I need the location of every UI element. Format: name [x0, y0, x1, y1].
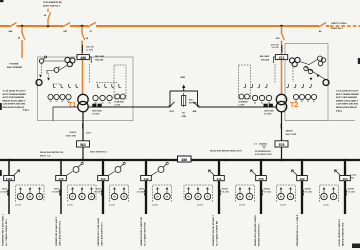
node T2-bus — [280, 159, 283, 162]
relay cluster T2 — [295, 57, 300, 62]
svg-text:141: 141 — [216, 177, 221, 181]
svg-text:AUTO TAPCHANGER: AUTO TAPCHANGER — [3, 96, 25, 99]
meter arrows 132 — [280, 188, 282, 194]
node feeder 141 — [218, 159, 221, 162]
arrester coil T1 — [81, 45, 83, 53]
meter arrows 172 — [72, 188, 74, 194]
NO arrow 141 — [209, 170, 215, 175]
svg-text:TO GRD: TO GRD — [264, 114, 272, 116]
svg-text:472: 472 — [279, 56, 285, 60]
switch 68 riser blade — [48, 12, 51, 19]
svg-text:BYPASS: BYPASS — [189, 101, 197, 104]
svg-text:RELAY AND METER PANEL (FUT): RELAY AND METER PANEL (FUT) — [210, 149, 242, 152]
meters 142 — [154, 193, 160, 199]
svg-text:area B: area B — [67, 204, 73, 206]
node feeder 150 — [344, 159, 347, 162]
svg-text:220KV NO 2: 220KV NO 2 — [331, 28, 344, 30]
svg-text:4160V: 4160V — [86, 132, 92, 135]
NO indicator 152 — [115, 167, 121, 173]
wire future feeder drop — [21, 26, 23, 58]
node bus-elizabeth — [47, 25, 50, 28]
svg-text:TO ELIZABETH SB: TO ELIZABETH SB — [43, 1, 62, 4]
wire feeder 156 lower — [260, 181, 262, 214]
chevrons T2 — [310, 75, 320, 81]
switch 46 blade — [319, 23, 326, 27]
svg-text:HIGH SIDE: HIGH SIDE — [92, 110, 102, 112]
arrow bypass — [182, 85, 185, 89]
svg-text:51: 51 — [56, 101, 58, 103]
svg-text:SOMERSET RD & SAN JUAN 1: SOMERSET RD & SAN JUAN 1 — [2, 213, 5, 246]
svg-text:40900: 40900 — [96, 187, 101, 190]
meters 152 — [111, 193, 117, 199]
svg-text:2x 1085: 2x 1085 — [272, 47, 279, 49]
wire feeder 132 lower — [301, 181, 303, 214]
aux relay circles T2 — [318, 56, 323, 61]
relay 87T circles T2 — [321, 58, 325, 62]
wire 220kV bus — [0, 25, 329, 27]
frame T2 lower line — [285, 120, 355, 122]
svg-text:NOR B: NOR B — [70, 132, 77, 134]
svg-text:486: 486 — [181, 158, 187, 162]
svg-text:66KV SWGR NO 1: 66KV SWGR NO 1 — [90, 152, 108, 154]
switch 68 T1 blade — [82, 34, 85, 41]
svg-text:40900B: 40900B — [222, 187, 229, 190]
svg-text:(BKR A) STATION USE: (BKR A) STATION USE — [342, 222, 345, 246]
svg-text:area B: area B — [15, 204, 21, 206]
NO indicator 172 — [73, 167, 79, 173]
svg-text:REGULATION RELAY: REGULATION RELAY — [3, 106, 25, 109]
svg-text:OAK LANE EAST NO 3: OAK LANE EAST NO 3 — [101, 222, 104, 246]
meter charging T1 — [115, 94, 120, 99]
svg-text:220KV LINE NO 1: 220KV LINE NO 1 — [43, 6, 61, 8]
NO arrow 156 — [251, 170, 257, 175]
breaker 141 box — [214, 176, 225, 181]
svg-text:NER: NER — [180, 77, 185, 79]
svg-text:area B: area B — [152, 204, 158, 206]
svg-text:578: 578 — [279, 143, 285, 147]
svg-text:CH-1085: CH-1085 — [264, 191, 271, 193]
wire feeder 172 lower — [60, 181, 62, 214]
wire feeder 142 upper — [145, 160, 147, 176]
svg-text:CH-1085: CH-1085 — [305, 191, 312, 193]
edge mark left-b — [0, 170, 2, 176]
switch 686 blade — [10, 23, 17, 27]
svg-text:TO GRD: TO GRD — [92, 114, 100, 116]
svg-text:CHARGING: CHARGING — [114, 100, 124, 103]
svg-text:CH-1085: CH-1085 — [52, 191, 59, 193]
CT T1 down — [81, 124, 84, 129]
svg-text:CH-1085: CH-1085 — [348, 191, 355, 193]
svg-text:T1: T1 — [68, 102, 76, 109]
chevrons T1 — [39, 75, 50, 81]
svg-text:132: 132 — [299, 177, 304, 181]
svg-text:142: 142 — [143, 177, 148, 181]
PT hooks T1 — [53, 84, 121, 88]
svg-text:4160 3W: 4160 3W — [86, 46, 94, 49]
svg-text:area B: area B — [197, 204, 203, 206]
svg-text:51: 51 — [307, 101, 309, 103]
NO arrow 1112 — [14, 170, 20, 175]
svg-text:40900: 40900 — [54, 187, 59, 190]
svg-text:or 2088: or 2088 — [238, 104, 244, 106]
bus 66kV main — [0, 159, 360, 161]
frame T2 panel — [285, 44, 328, 121]
svg-text:51: 51 — [261, 102, 263, 104]
meters 132 — [278, 193, 284, 199]
CT 1112 — [7, 190, 10, 196]
svg-text:SOMERSET ROYAL ATLANT 7: SOMERSET ROYAL ATLANT 7 — [212, 214, 215, 246]
edge mark top-left — [0, 0, 4, 2]
dashed sense T1 — [42, 64, 119, 85]
CT T2 down — [280, 124, 283, 129]
wire T1-T2 tie — [88, 106, 277, 108]
meters T1 right — [93, 95, 98, 100]
switch 42B blade — [193, 102, 199, 108]
svg-text:CH-1085: CH-1085 — [137, 191, 144, 193]
CT 141 — [219, 190, 222, 196]
node feeder 156 — [260, 159, 263, 162]
svg-text:1-5/8 STEPS 2789 5HG: 1-5/8 STEPS 2789 5HG — [336, 104, 359, 106]
svg-text:156: 156 — [258, 177, 263, 181]
wire riser to Elizabeth sub — [47, 9, 49, 27]
wire feeder 1112 upper — [8, 160, 10, 176]
wire feeder 141 upper — [218, 160, 220, 176]
meters 150 — [321, 193, 327, 199]
node feeder 142 — [145, 159, 148, 162]
wire T2 HV drop — [281, 26, 283, 95]
svg-text:66KV FEEDER: 66KV FEEDER — [7, 67, 22, 69]
svg-text:AUTO TRANSFORMER: AUTO TRANSFORMER — [336, 93, 359, 96]
svg-text:RELAY AND METER PNL: RELAY AND METER PNL — [40, 151, 64, 154]
svg-text:40900: 40900 — [2, 187, 7, 190]
breaker 172 box — [56, 176, 67, 181]
wire feeder 152 lower — [102, 181, 104, 214]
fuse bypass — [182, 96, 186, 106]
arrester coil T2 — [281, 45, 283, 53]
meter dashed box 142 — [153, 185, 172, 202]
svg-text:G81-008: G81-008 — [95, 59, 104, 61]
wire cluster to aux T2 — [300, 60, 326, 80]
wire feeder 141 lower — [218, 181, 220, 214]
svg-text:SEL 0493: SEL 0493 — [95, 55, 105, 58]
breaker 142 box — [141, 176, 152, 181]
svg-text:T-1 IS 220/66 KV 66 KV: T-1 IS 220/66 KV 66 KV — [3, 91, 27, 93]
meter dashed box 150 — [320, 185, 339, 202]
relay 486 hook — [89, 57, 91, 63]
svg-text:LOCAL: LOCAL — [351, 173, 358, 176]
CT 132 — [302, 190, 305, 196]
CT box T2b — [269, 104, 273, 108]
node bus-T2 — [280, 25, 283, 28]
dashed box charging T1 — [114, 65, 126, 99]
meters T2 mid — [266, 95, 271, 100]
meter combined T2 — [239, 94, 244, 99]
meter dashed box 141 — [184, 185, 213, 202]
svg-text:2x 1085: 2x 1085 — [86, 49, 93, 51]
CT 142 — [144, 190, 147, 196]
node feeder 172 — [60, 159, 63, 162]
edge mark left-a — [0, 103, 2, 110]
NO indicator 142 — [158, 167, 164, 173]
svg-text:(PROT 1-3): (PROT 1-3) — [40, 156, 51, 158]
breaker 578 box — [275, 141, 288, 147]
meter arrows 141 — [188, 188, 190, 194]
svg-text:87: 87 — [62, 101, 64, 103]
PT hooks T2 — [244, 84, 312, 88]
svg-text:CH-1085: CH-1085 — [94, 191, 101, 193]
meter arrows 150 — [323, 188, 325, 194]
svg-text:NO RESERVE ALR: NO RESERVE ALR — [255, 150, 272, 153]
dashed sense T2 — [275, 64, 293, 83]
meters 141 — [185, 193, 191, 199]
svg-text:AREA B: AREA B — [286, 130, 294, 133]
aux relay on frame T2 — [323, 80, 329, 86]
NO arrow 150 — [335, 170, 341, 175]
node bus aux — [164, 159, 166, 161]
meters T1 left — [48, 94, 53, 99]
svg-text:1-5/8 STEPS 2789 5HG: 1-5/8 STEPS 2789 5HG — [3, 104, 26, 106]
svg-text:area B: area B — [239, 204, 245, 206]
svg-text:G81-008: G81-008 — [261, 59, 270, 61]
svg-text:or 2088: or 2088 — [114, 104, 120, 106]
wire feeder 1112 lower — [8, 181, 10, 214]
svg-text:SHADE RD & ENGINE NORTH: SHADE RD & ENGINE NORTH — [254, 215, 257, 246]
relay cluster T1 — [65, 57, 70, 62]
svg-text:area B: area B — [280, 204, 286, 206]
switch 687 blade — [63, 23, 70, 27]
svg-text:area B: area B — [323, 204, 329, 206]
breaker 562 box — [77, 141, 90, 147]
svg-text:area B: area B — [109, 204, 115, 206]
svg-text:RANGE 23726-34459 V: RANGE 23726-34459 V — [336, 99, 359, 102]
node feeder 132 — [301, 159, 304, 162]
svg-text:REGULATION RELAY: REGULATION RELAY — [336, 106, 358, 109]
meter dashed box 1112 — [16, 185, 45, 202]
wire feeder 150 upper — [344, 160, 346, 176]
wire T1 HV drop — [81, 26, 84, 95]
meter arrows 142 — [157, 188, 159, 194]
svg-text:NO 1: NO 1 — [189, 99, 193, 101]
svg-text:No 4 CABLE WEST RD: No 4 CABLE WEST RD — [144, 222, 147, 246]
wire T1 left stub — [53, 107, 78, 121]
transformer T1 — [78, 94, 88, 104]
node feeder 152 — [102, 159, 105, 162]
CT box T1b — [98, 104, 102, 108]
breaker 152 box — [98, 176, 109, 181]
wire feeder 152 upper — [102, 160, 104, 176]
svg-text:COMBINED: COMBINED — [238, 101, 248, 103]
svg-text:CH-1085: CH-1085 — [0, 191, 7, 193]
ground ref T2 — [259, 144, 267, 148]
edge mark right-a — [358, 58, 360, 64]
svg-text:562: 562 — [80, 143, 86, 147]
svg-text:SEL 0493: SEL 0493 — [260, 55, 270, 58]
svg-text:AUTO TRANSFORMER: AUTO TRANSFORMER — [3, 93, 27, 96]
svg-text:ENGINE NORTH NO 5: ENGINE NORTH NO 5 — [259, 223, 261, 246]
wire 220kV line to Chino dashed — [330, 25, 360, 27]
breaker 150 box — [340, 176, 351, 181]
svg-text:51: 51 — [102, 102, 104, 104]
aux relay circles T1 — [54, 68, 59, 73]
relay 486 box — [77, 55, 89, 60]
svg-text:1112: 1112 — [6, 177, 13, 181]
svg-text:PRESERVE RD & No 7 CABLE: PRESERVE RD & No 7 CABLE — [296, 214, 299, 246]
meter dashed box 156 — [236, 185, 255, 202]
breaker 132 box — [297, 176, 308, 181]
svg-text:59: 59 — [109, 102, 111, 104]
relay 472 hook — [274, 57, 276, 63]
svg-text:40900: 40900 — [139, 187, 144, 190]
wire feeder 172 upper — [60, 160, 62, 176]
svg-text:150: 150 — [342, 177, 347, 181]
CT 152 — [101, 190, 104, 196]
svg-text:NAPERVILLE & OAK LANE: NAPERVILLE & OAK LANE — [97, 217, 100, 246]
svg-text:LINE TO CHINO: LINE TO CHINO — [331, 23, 347, 25]
dashed box combined T2 — [239, 65, 251, 99]
node bus-T1 — [81, 25, 84, 28]
svg-text:HIGH SIDE: HIGH SIDE — [264, 110, 274, 112]
CT box T2a — [264, 104, 268, 108]
meter arrows 1112 — [20, 188, 22, 194]
meter dashed box 152 — [110, 185, 129, 202]
meter arrows 152 — [114, 188, 116, 194]
relay 87T circles — [39, 59, 43, 63]
wire T1 LV down — [82, 112, 84, 160]
svg-text:42B: 42B — [193, 110, 197, 113]
relay 472 box — [275, 55, 287, 60]
meter dashed box 132 — [277, 185, 296, 202]
svg-text:AUTO MALDI COLE: AUTO MALDI COLE — [255, 153, 273, 156]
edge mark bottom-right — [352, 244, 360, 249]
node feeder 1112 — [8, 159, 11, 162]
svg-text:66KV GRD: 66KV GRD — [66, 136, 77, 138]
svg-text:41: 41 — [313, 100, 315, 103]
svg-text:41 B: 41 B — [170, 110, 175, 113]
wire feeder 142 lower — [145, 181, 147, 214]
svg-text:40900B: 40900B — [264, 187, 271, 190]
wire feeder 132 upper — [301, 160, 303, 176]
meters 156 — [237, 193, 243, 199]
svg-text:172: 172 — [58, 177, 63, 181]
CT box T1a — [92, 104, 96, 108]
svg-text:4160 3W: 4160 3W — [271, 43, 279, 46]
CT 172 — [59, 190, 62, 196]
wire relay cluster to aux — [47, 66, 67, 75]
svg-text:486: 486 — [80, 56, 86, 60]
switch 478 blade — [282, 34, 285, 41]
svg-text:OAK LANE SOUTH NO 2: OAK LANE SOUTH NO 2 — [59, 220, 62, 246]
CT 150 — [345, 190, 348, 196]
wire feeder 156 upper — [260, 160, 262, 176]
switch 67 blade — [88, 22, 96, 26]
svg-text:41: 41 — [50, 100, 52, 103]
meters 172 — [69, 193, 75, 199]
meter dashed box 172 — [68, 185, 97, 202]
CT 156 — [261, 190, 264, 196]
meter arrows 156 — [239, 188, 241, 194]
aux relay on frame T1 — [36, 80, 42, 86]
relay 486 bus box — [178, 156, 192, 162]
svg-text:RANGE 23726-34459 V: RANGE 23726-34459 V — [3, 99, 27, 102]
node T1-bus — [82, 159, 85, 162]
wire bypass loop — [170, 87, 198, 106]
svg-text:No 7 CABLE SOUTH RD 1: No 7 CABLE SOUTH RD 1 — [5, 218, 8, 246]
NO arrow 132 — [292, 170, 298, 175]
svg-text:CH-1085: CH-1085 — [222, 191, 229, 193]
svg-text:No 2 CABLE NORTH RD: No 2 CABLE NORTH RD — [216, 221, 219, 246]
svg-text:152: 152 — [100, 177, 105, 181]
frame T1 panel — [38, 57, 134, 121]
svg-text:87: 87 — [301, 101, 303, 103]
transformer T2 — [276, 94, 286, 104]
wire feeder 150 lower — [344, 181, 346, 214]
svg-text:GRN: GRN — [182, 116, 187, 118]
svg-text:SOMERS RD & OAK LANE 2: SOMERS RD & OAK LANE 2 — [55, 216, 58, 246]
svg-text:40900B: 40900B — [348, 187, 355, 190]
svg-text:T2: T2 — [290, 102, 298, 109]
svg-text:AUTO TAPCHANGER: AUTO TAPCHANGER — [336, 96, 357, 99]
meters T2 right — [311, 94, 316, 99]
switch 41B blade — [169, 102, 175, 108]
svg-text:HARBOR BLVD & WEST RD: HARBOR BLVD & WEST RD — [140, 217, 143, 246]
svg-text:66KV CORE: 66KV CORE — [286, 134, 297, 136]
wire T2 LV down — [281, 112, 283, 160]
svg-text:T-2 IS 220/66 KV 66 KV: T-2 IS 220/66 KV 66 KV — [336, 91, 359, 93]
svg-text:59: 59 — [254, 102, 256, 104]
svg-text:LOCAL SERVICE BKR A 8: LOCAL SERVICE BKR A 8 — [338, 218, 341, 246]
meters 1112 — [17, 193, 23, 199]
svg-text:40900B: 40900B — [305, 187, 312, 190]
svg-text:4 B(+): 4 B(+) — [23, 109, 29, 112]
svg-text:FUTURE: FUTURE — [10, 63, 19, 65]
breaker 156 box — [256, 176, 267, 181]
breaker 1112 box — [4, 176, 15, 181]
switch 68 future blade — [22, 33, 25, 40]
node mid-bus — [224, 159, 227, 162]
node bus-future — [21, 25, 24, 28]
svg-text:4 B(+): 4 B(+) — [336, 109, 342, 112]
